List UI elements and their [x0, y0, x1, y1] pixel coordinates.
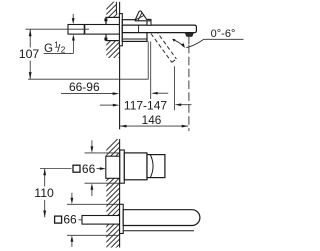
- dimension 146: [120, 125, 188, 127]
- housing front extension lines: [147, 41, 149, 79]
- dimension 107: [29, 29, 31, 47]
- wall face line (bottom section): [119, 139, 121, 248]
- 107 bottom extension line: [28, 78, 148, 80]
- svg-text:0°-6°: 0°-6°: [211, 28, 236, 40]
- wall hatch bottom band: [103, 137, 120, 251]
- leader arc from 0-6 label: [186, 39, 204, 47]
- pipe centerline / 107 top extension: [26, 28, 90, 30]
- spout under line: [123, 230, 194, 232]
- svg-text:110: 110: [34, 186, 54, 200]
- handle unit top extension: [85, 152, 120, 154]
- spout division line: [138, 25, 140, 32]
- spout unit top extension: [67, 203, 120, 205]
- lever foot step: [147, 20, 151, 26]
- label square 66 (handle): [73, 165, 80, 172]
- handle 66 arrows: [91, 140, 93, 147]
- mounting screw bottom: [104, 38, 107, 41]
- G1/2 arrows: [72, 14, 74, 19]
- dimension 110: [40, 168, 72, 170]
- extension line 117 min: [173, 66, 175, 110]
- svg-text:66: 66: [63, 213, 77, 227]
- handle escutcheon plate: [120, 150, 125, 183]
- aerator centerline dashed: [188, 45, 190, 131]
- svg-text:66-96: 66-96: [69, 80, 100, 94]
- dimension 66-96: [61, 93, 113, 95]
- wall face line (top section): [119, 2, 121, 130]
- tube junction: [84, 25, 86, 35]
- spout unit stub (bottom view): [82, 216, 120, 225]
- G1/2 supply tube: [68, 25, 120, 35]
- svg-text:117-147: 117-147: [124, 98, 167, 112]
- spout 66 arrows: [71, 193, 73, 199]
- svg-text:146: 146: [142, 113, 162, 127]
- tilt arrow arc: [174, 40, 184, 47]
- dimension 117-147: [100, 104, 113, 106]
- handle unit stub (bottom view): [106, 156, 120, 178]
- wall rough edge above escutcheon: [115, 2, 117, 14]
- wall hatch top band: [103, 0, 120, 74]
- dashed lever alternate position: [147, 25, 176, 63]
- mixer housing (side view): [122, 20, 147, 42]
- svg-text:66: 66: [82, 162, 96, 176]
- lever handle (side view): [135, 11, 151, 21]
- aerator plumb line: [188, 36, 190, 44]
- handle unit bottom extension: [85, 182, 120, 184]
- spout bar: [122, 25, 196, 32]
- housing internal line: [122, 38, 147, 40]
- escutcheon plate (side view): [119, 14, 122, 46]
- 0-6 underline: [204, 38, 244, 40]
- rough-in box (in-wall body): [106, 17, 120, 40]
- spout bar (bottom view): [123, 210, 200, 226]
- svg-text:107: 107: [19, 47, 40, 61]
- spout escutcheon plate (bottom): [120, 204, 124, 233]
- handle cap: [147, 155, 165, 178]
- handle housing: [124, 153, 147, 180]
- label square 66 (spout): [55, 216, 62, 223]
- spout unit bottom extension: [67, 234, 118, 236]
- mounting screw top: [104, 18, 107, 21]
- aerator: [185, 33, 193, 37]
- handle cap arc: [150, 155, 153, 178]
